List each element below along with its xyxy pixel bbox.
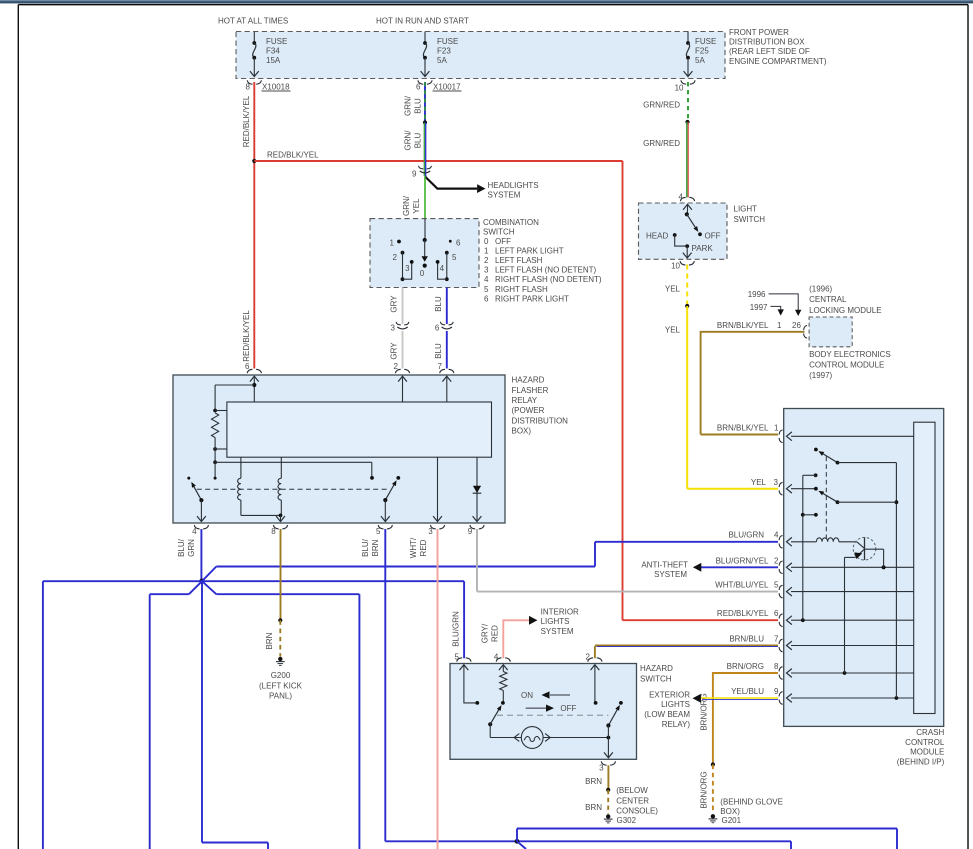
svg-text:GRY: GRY: [390, 295, 399, 313]
relay mechanical link dashed: [197, 488, 389, 490]
svg-text:SYSTEM: SYSTEM: [541, 627, 574, 636]
crash module pin 1: [779, 430, 792, 443]
svg-text:BRN/BLK/YEL: BRN/BLK/YEL: [717, 321, 769, 330]
splice 6 connector: [435, 322, 453, 333]
svg-text:BLU/: BLU/: [361, 538, 370, 557]
svg-text:SWITCH: SWITCH: [734, 215, 766, 224]
svg-text:(LEFT KICK: (LEFT KICK: [259, 681, 303, 690]
svg-text:BODY ELECTRONICS: BODY ELECTRONICS: [809, 350, 891, 359]
svg-text:YEL: YEL: [665, 325, 681, 334]
relay left switch: [187, 477, 206, 522]
svg-text:BRN/ORG: BRN/ORG: [700, 771, 709, 808]
ground G302: [604, 786, 659, 825]
svg-text:HOT IN RUN AND START: HOT IN RUN AND START: [376, 16, 469, 25]
arrow to HEADLIGHTS SYSTEM: [425, 177, 539, 200]
svg-text:3: 3: [484, 266, 489, 275]
svg-text:2: 2: [774, 556, 779, 565]
svg-text:ENGINE COMPARTMENT): ENGINE COMPARTMENT): [729, 57, 827, 66]
svg-text:1: 1: [390, 239, 395, 248]
relay coil 1: [238, 457, 241, 515]
svg-text:YEL: YEL: [751, 478, 767, 487]
svg-text:CENTRAL: CENTRAL: [809, 295, 847, 304]
svg-text:WHT/BLU/YEL: WHT/BLU/YEL: [715, 581, 769, 590]
wire BLU/GRN relay pin 4: [177, 529, 201, 581]
svg-text:4: 4: [774, 531, 779, 540]
svg-text:YEL/BLU: YEL/BLU: [731, 687, 764, 696]
wire BLU/GRN branch south: [202, 581, 268, 849]
wire BRN/ORG crash pin 8 to G201: [700, 662, 780, 764]
fuse F23 5A: [421, 32, 459, 77]
svg-text:SYSTEM: SYSTEM: [654, 570, 687, 579]
front power distribution box (fuse box): [236, 32, 725, 79]
label FRONT POWER DISTRIBUTION BOX: [729, 28, 827, 66]
connector X10017 pin 6: [416, 80, 461, 91]
hazard pin 3 exit: [599, 761, 615, 772]
svg-text:2: 2: [393, 253, 398, 262]
svg-text:DISTRIBUTION: DISTRIBUTION: [512, 416, 569, 425]
svg-text:ON: ON: [521, 691, 533, 700]
svg-text:10: 10: [675, 84, 684, 93]
relay internal block: [227, 402, 492, 457]
svg-text:6: 6: [416, 82, 421, 91]
crash module connector block: [914, 422, 935, 713]
relay right switch: [381, 476, 400, 522]
svg-text:OFF: OFF: [495, 237, 511, 246]
wire BRN/BLU hazard pin 2 to crash pin 7: [595, 635, 779, 659]
wire GRN/RED dashed from fuse F25: [643, 82, 688, 122]
svg-text:RIGHT FLASH: RIGHT FLASH: [495, 285, 548, 294]
relay pin 9 exit: [468, 525, 484, 536]
svg-text:1: 1: [484, 246, 489, 255]
svg-text:CONSOLE): CONSOLE): [616, 807, 658, 816]
crash pin 3 internal line: [791, 488, 816, 490]
connector X10018 pin 8: [246, 80, 291, 91]
svg-text:26: 26: [792, 321, 801, 330]
central locking module box: [804, 317, 853, 347]
svg-text:RELAY: RELAY: [512, 396, 538, 405]
wire BLU bottom bus: [517, 829, 897, 849]
svg-text:BRN: BRN: [585, 803, 602, 812]
crash module pin 2: [779, 561, 792, 574]
svg-text:10: 10: [671, 261, 680, 270]
wire BRN/BLK/YEL to crash pin 1: [701, 424, 779, 435]
wire RED/BLK/YEL to crash module pin 6: [623, 161, 780, 620]
crash transistor Q1: [845, 537, 884, 673]
relay coil 2: [278, 457, 281, 515]
label ON arrow: [521, 691, 570, 700]
svg-text:MODULE: MODULE: [910, 748, 944, 757]
svg-text:RED/BLK/YEL: RED/BLK/YEL: [242, 310, 251, 362]
svg-text:6: 6: [245, 362, 250, 371]
svg-text:3: 3: [599, 764, 604, 773]
crash module pin 6: [779, 614, 792, 627]
svg-text:2: 2: [484, 256, 489, 265]
svg-text:F25: F25: [695, 47, 709, 56]
svg-text:RED: RED: [419, 539, 428, 556]
svg-text:FRONT POWER: FRONT POWER: [729, 28, 789, 37]
svg-text:8: 8: [774, 662, 779, 671]
relay resistor: [212, 385, 255, 462]
svg-text:7: 7: [438, 362, 443, 371]
fuse F25 5A: [684, 32, 717, 77]
svg-text:GRN: GRN: [187, 539, 196, 557]
crash module pin 4: [779, 536, 792, 549]
crash module pin 8: [779, 667, 792, 680]
svg-text:LEFT FLASH (NO DETENT): LEFT FLASH (NO DETENT): [495, 266, 597, 275]
relay pin 3 exit: [428, 525, 444, 536]
svg-text:BLU/GRN: BLU/GRN: [728, 531, 764, 540]
wire BLU/GRN/YEL to anti-theft system: [641, 556, 779, 579]
wire GRY lower segment: [390, 331, 403, 369]
relay pin 3 line: [433, 457, 442, 521]
svg-text:BLU/GRN: BLU/GRN: [452, 611, 461, 647]
svg-text:RED/BLK/YEL: RED/BLK/YEL: [717, 609, 769, 618]
hazard right switch: [606, 701, 622, 728]
svg-text:4: 4: [440, 264, 445, 273]
splice 3 connector: [391, 322, 409, 333]
svg-text:BLU/: BLU/: [177, 538, 186, 557]
wire GRN/BLU solid segment: [404, 120, 428, 176]
svg-text:(POWER: (POWER: [512, 406, 545, 415]
svg-text:5: 5: [376, 527, 381, 536]
svg-text:1: 1: [777, 321, 782, 330]
label CENTRAL LOCKING MODULE: [809, 285, 881, 315]
svg-text:(REAR LEFT SIDE OF: (REAR LEFT SIDE OF: [729, 47, 810, 56]
splice 9 connector: [412, 166, 431, 179]
wire YEL/BLU to exterior lights: [644, 687, 779, 729]
svg-text:FUSE: FUSE: [266, 37, 287, 46]
wire GRY upper segment: [390, 288, 403, 325]
label CRASH CONTROL MODULE: [897, 728, 945, 766]
combination switch detent 4 bracket: [436, 253, 449, 281]
svg-text:6: 6: [456, 239, 461, 248]
relay diode to pin 9: [473, 457, 482, 521]
wire GRN/RED solid to light switch: [643, 120, 689, 197]
svg-text:SWITCH: SWITCH: [640, 674, 672, 683]
wire BLU/GRN branch southwest: [150, 581, 202, 849]
svg-text:F34: F34: [266, 47, 280, 56]
svg-text:(BELOW: (BELOW: [616, 786, 648, 795]
svg-text:ANTI-THEFT: ANTI-THEFT: [641, 561, 688, 570]
hazard indicator lamp: [490, 724, 610, 748]
svg-text:4: 4: [679, 193, 684, 202]
light switch pin 4: [679, 193, 695, 215]
svg-text:LIGHTS: LIGHTS: [541, 617, 570, 626]
svg-text:G302: G302: [617, 816, 637, 825]
svg-text:6: 6: [435, 324, 440, 333]
hazard pin 3 internal: [604, 726, 613, 758]
svg-text:BLU/GRN/YEL: BLU/GRN/YEL: [716, 556, 769, 565]
svg-text:SWITCH: SWITCH: [483, 227, 515, 236]
svg-text:BRN/ORG: BRN/ORG: [727, 662, 764, 671]
svg-text:GRN/: GRN/: [404, 130, 413, 151]
svg-text:3: 3: [774, 478, 779, 487]
svg-text:GRY/: GRY/: [481, 623, 490, 643]
wire GRY/RED hazard pin 4 to interior lights: [481, 608, 580, 659]
wire BLU/GRN branch southeast: [202, 581, 359, 849]
svg-text:COMBINATION: COMBINATION: [483, 218, 539, 227]
wire BRN hazard pin 3: [585, 765, 610, 814]
relay pin 7 entry: [438, 362, 454, 402]
wire BLU/BRN relay pin 5: [361, 529, 791, 849]
svg-text:BRN/BLK/YEL: BRN/BLK/YEL: [717, 424, 769, 433]
ground G201: [709, 798, 783, 825]
svg-text:(BEHIND I/P): (BEHIND I/P): [897, 757, 945, 766]
svg-text:15A: 15A: [266, 56, 281, 65]
crash pin 1 internal line: [791, 435, 914, 437]
crash contact stub upper: [803, 473, 818, 620]
crash pin 8 internal line: [791, 671, 914, 675]
svg-text:X10017: X10017: [433, 82, 461, 91]
svg-text:YEL: YEL: [412, 198, 421, 214]
combination switch contact 5: [445, 251, 457, 262]
crash mechanical link dashed: [825, 457, 827, 540]
combination switch detent 3 bracket: [401, 253, 414, 281]
wire BLU/GRN bus to crash pin 4: [202, 531, 779, 582]
relay pin 5 exit: [376, 525, 392, 536]
svg-text:3: 3: [405, 264, 410, 273]
svg-text:BLU: BLU: [414, 98, 423, 114]
svg-text:RED/BLK/YEL: RED/BLK/YEL: [242, 95, 251, 147]
svg-text:HAZARD: HAZARD: [512, 376, 545, 385]
svg-text:1: 1: [774, 424, 779, 433]
combination switch contact 1: [390, 239, 401, 248]
svg-text:(LOW BEAM: (LOW BEAM: [644, 710, 690, 719]
svg-text:BRN/BLU: BRN/BLU: [729, 635, 764, 644]
svg-text:RELAY): RELAY): [662, 720, 691, 729]
svg-text:(1996): (1996): [809, 285, 832, 294]
svg-text:YEL: YEL: [665, 285, 681, 294]
svg-text:4: 4: [192, 527, 197, 536]
svg-text:RED/BLK/YEL: RED/BLK/YEL: [267, 151, 319, 160]
svg-text:G201: G201: [722, 816, 742, 825]
fuse F25 pin 10: [675, 80, 696, 92]
crash switch 1: [814, 448, 898, 698]
svg-text:BOX): BOX): [720, 807, 740, 816]
svg-text:LIGHT: LIGHT: [734, 205, 758, 214]
combination switch contact 2: [393, 251, 405, 262]
combination switch box: [370, 219, 479, 288]
wire GRN/YEL to combination switch: [402, 177, 425, 219]
svg-text:F23: F23: [437, 47, 451, 56]
svg-text:OFF: OFF: [560, 704, 576, 713]
svg-text:9: 9: [774, 687, 779, 696]
svg-text:GRN/RED: GRN/RED: [643, 139, 680, 148]
svg-text:0: 0: [420, 269, 425, 278]
wire YEL to crash pin 3: [665, 304, 779, 489]
label BODY ELECTRONICS CONTROL MODULE: [809, 350, 891, 380]
svg-text:LEFT PARK LIGHT: LEFT PARK LIGHT: [495, 246, 564, 255]
wire BRN/BLK/YEL to central locking module: [701, 321, 805, 435]
svg-text:OFF: OFF: [705, 232, 721, 241]
svg-text:(1997): (1997): [809, 371, 832, 380]
svg-text:3: 3: [391, 324, 396, 333]
svg-text:BRN: BRN: [265, 632, 274, 649]
svg-text:9: 9: [468, 527, 473, 536]
splice node bottom: [515, 839, 526, 849]
relay pin 2 entry: [394, 362, 410, 402]
svg-text:CRASH: CRASH: [916, 728, 944, 737]
svg-text:2: 2: [585, 652, 590, 661]
splice node X: [199, 579, 204, 584]
wire BLU/GRN to hazard switch pin 5: [202, 581, 464, 658]
svg-text:3: 3: [428, 527, 433, 536]
crash pin 9 internal line: [791, 696, 914, 700]
wire BLU upper segment: [434, 288, 447, 325]
svg-text:GRN/: GRN/: [404, 95, 413, 116]
light switch pin 10: [671, 246, 694, 270]
label LIGHT SWITCH: [734, 205, 766, 225]
svg-text:PARK: PARK: [692, 244, 714, 253]
svg-text:8: 8: [246, 82, 251, 91]
svg-text:CONTROL MODULE: CONTROL MODULE: [809, 360, 884, 369]
crash module pin 5: [779, 585, 792, 598]
svg-text:5: 5: [452, 253, 457, 262]
svg-text:X10018: X10018: [262, 82, 290, 91]
svg-text:4: 4: [494, 652, 499, 661]
svg-text:BLU: BLU: [434, 296, 443, 312]
svg-text:BLU: BLU: [414, 132, 423, 148]
svg-text:CENTER: CENTER: [616, 796, 649, 805]
svg-text:LOCKING MODULE: LOCKING MODULE: [809, 306, 881, 315]
fuse F34 15A: [250, 32, 287, 77]
label 1996 pointer: [748, 290, 802, 316]
svg-text:GRN/RED: GRN/RED: [643, 101, 680, 110]
svg-text:BLU: BLU: [434, 343, 443, 359]
relay pin 4 exit: [192, 525, 208, 536]
svg-text:FLASHER: FLASHER: [512, 386, 549, 395]
svg-text:BOX): BOX): [512, 427, 532, 436]
svg-text:5A: 5A: [437, 56, 447, 65]
crash pin 2 internal line: [791, 565, 914, 569]
crash contact stub lower: [801, 513, 818, 517]
wire RED/BLK/YEL vertical from fuse F34: [242, 82, 256, 369]
crash control module box: [784, 409, 944, 727]
wire WHT/BLU/YEL relay pin 9 to crash pin 5: [477, 529, 779, 592]
light switch contacts: [646, 212, 721, 253]
svg-text:HEAD: HEAD: [646, 232, 668, 241]
svg-text:FUSE: FUSE: [437, 37, 458, 46]
feed label HOT IN RUN AND START: [376, 16, 469, 25]
svg-text:GRN/: GRN/: [402, 195, 411, 216]
svg-text:(BEHIND GLOVE: (BEHIND GLOVE: [720, 798, 783, 807]
svg-text:RIGHT FLASH (NO DETENT): RIGHT FLASH (NO DETENT): [495, 275, 602, 284]
ground G200: [259, 657, 303, 701]
svg-text:INTERIOR: INTERIOR: [541, 608, 579, 617]
hazard mechanical link dashed: [497, 714, 608, 716]
wire YEL dashed: [665, 265, 687, 306]
svg-text:RED: RED: [491, 625, 500, 642]
svg-text:5: 5: [484, 285, 489, 294]
wire BLU/GRN branch left down: [43, 581, 202, 849]
crash relay coil: [791, 538, 857, 542]
svg-text:GRY: GRY: [390, 342, 399, 360]
svg-text:0: 0: [484, 237, 489, 246]
label OFF arrow: [526, 704, 577, 713]
svg-text:PANL): PANL): [269, 691, 292, 700]
hazard pin 4: [494, 652, 511, 705]
label COMBINATION SWITCH legend: [483, 218, 602, 304]
hazard left switch: [488, 705, 501, 726]
svg-text:5: 5: [454, 652, 459, 661]
wire WHT/RED relay pin 3: [409, 529, 438, 849]
crash pin 5 internal line: [791, 591, 914, 593]
svg-text:DISTRIBUTION BOX: DISTRIBUTION BOX: [729, 38, 805, 47]
svg-text:WHT/: WHT/: [409, 537, 418, 558]
svg-text:BRN: BRN: [585, 777, 602, 786]
wire BRN/ORG dashed segment: [700, 762, 716, 813]
svg-text:CONTROL: CONTROL: [905, 738, 945, 747]
crash pin 6 internal line: [791, 618, 914, 622]
svg-text:7: 7: [774, 635, 779, 644]
hazard switch box: [450, 664, 637, 760]
feed label HOT AT ALL TIMES: [218, 16, 288, 25]
light switch box: [639, 203, 728, 259]
crash module pin 9: [779, 692, 792, 705]
wire GRN/BLU dashed from fuse F23: [404, 82, 426, 123]
relay pin 8 exit: [271, 525, 287, 536]
svg-text:1996: 1996: [748, 290, 766, 299]
crash module pin 7: [779, 639, 792, 652]
svg-text:EXTERIOR: EXTERIOR: [649, 690, 690, 699]
svg-text:9: 9: [412, 170, 417, 179]
wire BRN relay pin 8 to G200: [265, 529, 282, 657]
svg-text:LEFT FLASH: LEFT FLASH: [495, 256, 543, 265]
crash module pin 3: [779, 482, 792, 495]
crash pin 7 internal line: [791, 645, 914, 647]
svg-text:HOT AT ALL TIMES: HOT AT ALL TIMES: [218, 16, 288, 25]
svg-text:HEADLIGHTS: HEADLIGHTS: [488, 181, 539, 190]
svg-text:6: 6: [484, 294, 489, 303]
svg-text:LIGHTS: LIGHTS: [661, 700, 690, 709]
hazard pin 2: [585, 652, 602, 705]
combination switch contact 6: [449, 239, 461, 248]
svg-text:8: 8: [271, 527, 276, 536]
relay coil common to pin 8: [241, 514, 285, 522]
combination switch wiper 0: [420, 219, 428, 278]
svg-text:1997: 1997: [750, 303, 768, 312]
crash switch 2: [814, 487, 896, 504]
svg-text:2: 2: [394, 362, 399, 371]
wire RED/BLK/YEL horizontal bus: [254, 151, 622, 162]
label 1997 pointer: [750, 303, 784, 316]
svg-text:FUSE: FUSE: [695, 37, 716, 46]
label HAZARD SWITCH: [640, 664, 673, 683]
hazard flasher relay box: [173, 375, 505, 523]
svg-text:SYSTEM: SYSTEM: [488, 191, 521, 200]
svg-text:6: 6: [774, 609, 779, 618]
label HAZARD FLASHER RELAY: [512, 376, 569, 436]
svg-text:4: 4: [484, 275, 489, 284]
svg-text:5: 5: [774, 581, 779, 590]
relay pin 6 entry: [245, 362, 261, 402]
svg-text:G200: G200: [271, 671, 291, 680]
svg-text:BRN: BRN: [371, 539, 380, 556]
svg-text:HAZARD: HAZARD: [640, 664, 673, 673]
svg-text:RIGHT PARK LIGHT: RIGHT PARK LIGHT: [495, 294, 569, 303]
wire BLU lower segment: [434, 331, 447, 369]
relay node to switch contacts: [213, 460, 374, 479]
svg-text:5A: 5A: [695, 56, 705, 65]
hazard pin 5: [454, 652, 479, 705]
